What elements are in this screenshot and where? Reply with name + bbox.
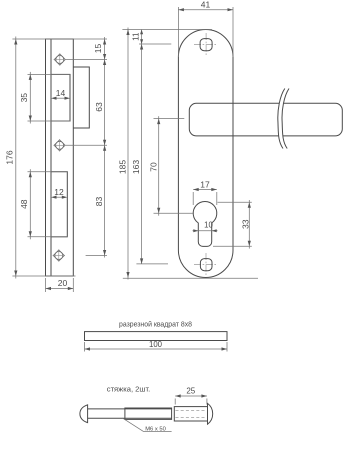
svg-text:12: 12	[54, 187, 64, 197]
screw hole 3	[53, 249, 65, 261]
dimension 20	[46, 278, 74, 292]
svg-text:48: 48	[19, 199, 29, 209]
svg-text:11: 11	[132, 32, 141, 41]
svg-text:15: 15	[93, 44, 103, 54]
strike plate outline	[46, 39, 74, 276]
screw hole 2	[53, 139, 65, 151]
dimension 11	[132, 30, 144, 45]
svg-text:разрезной квадрат 8х8: разрезной квадрат 8х8	[119, 321, 192, 329]
svg-text:100: 100	[149, 340, 163, 349]
extension line bottom hole left	[136, 263, 168, 265]
svg-text:стяжка, 2шт.: стяжка, 2шт.	[107, 385, 150, 394]
screw2 sleeve body	[174, 407, 207, 421]
top hole centerlines	[194, 33, 217, 56]
svg-text:10: 10	[204, 221, 213, 230]
keyhole (euro cylinder)	[193, 201, 217, 246]
dimension 12	[51, 187, 67, 199]
svg-text:35: 35	[19, 93, 29, 103]
screw1 shaft	[88, 409, 172, 418]
cutout for deadbolt (12mm)	[51, 172, 67, 237]
screw1 head	[80, 405, 88, 423]
extension line plate top	[12, 38, 107, 40]
break line right	[282, 89, 289, 149]
screw2 head	[208, 403, 213, 424]
extension line keyhole top right	[218, 201, 252, 203]
dimension 15	[93, 37, 106, 60]
latch box (side pocket)	[73, 67, 89, 128]
svg-text:M6 x 50: M6 x 50	[145, 427, 166, 433]
svg-text:25: 25	[186, 387, 195, 396]
handle lever	[189, 103, 342, 136]
extension line plate top left	[122, 29, 212, 31]
dimension 100	[85, 340, 228, 352]
top screw hole	[200, 39, 212, 51]
svg-text:17: 17	[200, 179, 210, 189]
extension line hole1 right	[66, 59, 107, 61]
dimension 41	[178, 0, 233, 57]
extension line plate bottom left	[123, 277, 258, 279]
svg-text:63: 63	[94, 102, 104, 112]
handle break gap	[278, 89, 289, 149]
svg-text:14: 14	[56, 88, 66, 98]
label tie screws 2pcs	[107, 385, 150, 394]
dimension 17	[193, 179, 217, 205]
dimension 14	[51, 88, 70, 100]
svg-text:176: 176	[5, 150, 15, 164]
bottom screw hole	[200, 259, 212, 271]
svg-text:20: 20	[58, 278, 68, 288]
square bar	[85, 332, 228, 341]
dimension 176	[5, 37, 18, 279]
extension line hole2 right	[66, 144, 107, 146]
handle plate (stadium)	[178, 30, 233, 278]
svg-text:33: 33	[240, 219, 250, 229]
svg-text:41: 41	[201, 0, 211, 10]
extension line keyhole bottom right	[213, 245, 252, 247]
extension line keyhole centre	[154, 212, 194, 214]
screw hole 1	[54, 53, 66, 65]
svg-text:185: 185	[117, 160, 127, 174]
extension line hole3 right	[86, 255, 107, 257]
strike plate fold line	[50, 39, 52, 276]
bottom hole centerlines	[194, 253, 217, 276]
leader line M6x50	[123, 418, 172, 432]
screw2 thread dashes	[176, 410, 207, 417]
break line left	[278, 89, 285, 149]
label split square 8x8	[119, 321, 192, 329]
dimension 185	[117, 28, 129, 280]
dimension 163	[131, 44, 143, 264]
svg-text:163: 163	[131, 160, 141, 174]
extension line handle centre	[154, 118, 185, 120]
dimension 35	[19, 72, 70, 124]
extension line plate bottom	[12, 275, 75, 277]
svg-text:83: 83	[94, 197, 104, 207]
cutout for latch (14mm)	[51, 74, 70, 121]
svg-text:70: 70	[149, 162, 159, 172]
dimension 10	[193, 221, 218, 233]
dimension 33	[240, 200, 251, 249]
dimension 63	[94, 60, 106, 146]
dimension 83	[94, 145, 106, 257]
dimension 48	[19, 169, 67, 239]
screw1 threaded section	[125, 408, 172, 419]
extension line top hole left	[139, 43, 171, 45]
dimension 70	[149, 116, 161, 216]
dimension 25	[175, 387, 207, 405]
